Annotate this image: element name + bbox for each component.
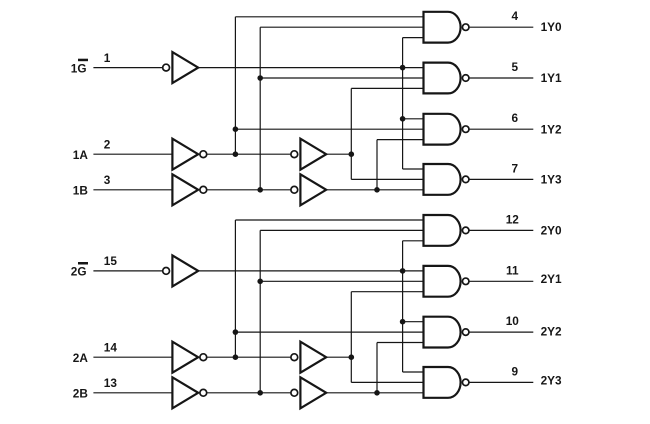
junction G2 / gate 2Y2 branch [400, 319, 406, 325]
wire 2Y1 output [469, 280, 533, 282]
junction A1-bar / gate 1Y2 branch [233, 126, 239, 132]
junction A2-bar / gate 2Y2 branch [233, 329, 239, 335]
nand gate 1Y2 output bubble [462, 126, 469, 133]
junction B2-bar tap on B row [257, 390, 263, 396]
wire 2Y0 output [469, 229, 533, 231]
wire G2 vertical [402, 241, 404, 372]
wire A1 to gate 1Y1 [351, 87, 423, 89]
svg-text:10: 10 [506, 314, 520, 328]
wire A1-bar to gate 1Y2 [235, 128, 423, 130]
svg-text:2A: 2A [73, 351, 89, 365]
wire A1 to gate 1Y3 [351, 178, 423, 180]
wire net B2-bar [207, 392, 291, 394]
nand gate 2Y0 [424, 215, 461, 246]
wire 2G input [93, 270, 162, 272]
svg-text:2: 2 [104, 137, 111, 151]
junction B1 tap [374, 187, 380, 193]
nand gate 2Y3 [424, 367, 461, 398]
svg-text:1B: 1B [73, 184, 88, 198]
wire G2 to gate 2Y3 [403, 371, 424, 373]
svg-text:1Y3: 1Y3 [541, 173, 562, 187]
wire 2Y3 output [469, 381, 533, 383]
wire B1-bar vertical [259, 27, 261, 190]
junction A2 tap [349, 354, 355, 360]
wire A1-bar vertical [234, 17, 236, 154]
inverter 2G enable buffer [163, 268, 170, 275]
wire A2-bar to gate 2Y2 [235, 331, 423, 333]
svg-text:2B: 2B [73, 387, 88, 401]
svg-text:1Y2: 1Y2 [541, 122, 562, 136]
svg-text:2Y2: 2Y2 [541, 325, 562, 339]
wire 1B input [93, 189, 172, 191]
wire B2 vertical [376, 343, 378, 393]
wire B1-bar to gate 1Y1 [260, 77, 423, 79]
wire 1A input [93, 153, 172, 155]
wire 1Y0 output [469, 26, 533, 28]
inverter 1A first stage [172, 139, 198, 170]
wire 1Y1 output [469, 77, 533, 79]
svg-text:11: 11 [506, 263, 519, 277]
wire B2-bar vertical [259, 230, 261, 392]
svg-text:2G: 2G [71, 265, 87, 279]
inverter 1B first stage [172, 174, 198, 205]
junction B1-bar tap on B row [257, 187, 263, 193]
wire G1 vertical [402, 38, 404, 169]
inverter 2A first stage [172, 342, 198, 373]
wire B1 vertical [376, 140, 378, 190]
svg-text:15: 15 [104, 254, 118, 268]
wire 1Y3 output [469, 178, 533, 180]
wire net B1-bar [207, 189, 291, 191]
wire A2-bar vertical [234, 220, 236, 357]
wire 2B input [93, 392, 172, 394]
svg-text:1Y0: 1Y0 [541, 20, 562, 34]
nand gate 1Y3 [424, 164, 461, 195]
svg-text:13: 13 [104, 376, 118, 390]
inverter 1G enable buffer [163, 64, 170, 71]
wire B1-bar to gate 1Y0 [260, 26, 423, 28]
wire A1 vertical [350, 88, 352, 179]
wire 2A input [93, 356, 172, 358]
svg-text:12: 12 [506, 212, 520, 226]
svg-text:3: 3 [104, 173, 111, 187]
wire A2 to gate 2Y1 [351, 291, 423, 293]
inverter 1B second stage [291, 186, 298, 193]
wire A2-bar to gate 2Y0 [235, 219, 423, 221]
wire A1-bar to gate 1Y0 [235, 16, 423, 18]
inverter 1A second stage [291, 151, 298, 158]
svg-text:2Y1: 2Y1 [541, 272, 562, 286]
svg-text:6: 6 [512, 111, 519, 125]
nand gate 1Y3 output bubble [462, 176, 469, 183]
svg-text:9: 9 [512, 364, 519, 378]
nand gate 1Y1 [424, 63, 461, 94]
wire net B1 into gate 1Y3 [326, 189, 423, 191]
nand gate 2Y2 [424, 317, 461, 348]
wire net A2-bar [207, 356, 291, 358]
junction G1 / gate 1Y2 branch [400, 116, 406, 122]
svg-text:4: 4 [512, 9, 519, 23]
wire B2-bar to gate 2Y1 [260, 280, 423, 282]
wire net A1 [326, 153, 351, 155]
wire G1 to gate 1Y2 [403, 118, 424, 120]
wire A2 vertical [350, 292, 352, 383]
junction A1 tap [349, 151, 355, 157]
svg-text:2Y0: 2Y0 [541, 223, 562, 237]
nand gate 1Y0 output bubble [462, 24, 469, 31]
inverter 2B second stage [291, 389, 298, 396]
junction A1-bar tap on A row [233, 151, 239, 157]
wire 1G input [93, 67, 162, 69]
svg-text:7: 7 [512, 161, 519, 175]
junction A2-bar tap on A row [233, 354, 239, 360]
junction G1 / gate 1Y1 [400, 65, 406, 71]
nand gate 1Y2 [424, 114, 461, 145]
svg-text:1A: 1A [73, 148, 89, 162]
wire B2-bar to gate 2Y0 [260, 229, 423, 231]
wire G1 to gate 1Y3 [403, 168, 424, 170]
inverter 2B first stage [172, 377, 198, 408]
nand gate 1Y1 output bubble [462, 75, 469, 82]
wire net A2 [326, 356, 351, 358]
nand gate 1Y0 [424, 12, 461, 43]
wire G2 to gate 2Y2 [403, 321, 424, 323]
svg-text:1G: 1G [71, 61, 87, 75]
wire 2Y2 output [469, 331, 533, 333]
junction G2 / gate 2Y1 [400, 268, 406, 274]
wire G1 to gate 1Y0 [403, 37, 424, 39]
wire net G2 to gate 2Y1 [198, 270, 423, 272]
wire A2 to gate 2Y3 [351, 381, 423, 383]
junction B1-bar / gate 1Y1 branch [257, 75, 263, 81]
wire G2 to gate 2Y0 [403, 240, 424, 242]
wire net G1 to gate 1Y1 [198, 67, 423, 69]
nand gate 2Y3 output bubble [462, 379, 469, 386]
svg-text:14: 14 [104, 340, 118, 354]
svg-text:5: 5 [512, 60, 519, 74]
svg-text:1Y1: 1Y1 [541, 71, 562, 85]
wire net A1-bar [207, 153, 291, 155]
svg-text:1: 1 [104, 51, 111, 65]
wire B2 to gate 2Y2 [377, 342, 424, 344]
wire 1Y2 output [469, 128, 533, 130]
nand gate 2Y0 output bubble [462, 227, 469, 234]
nand gate 2Y1 [424, 266, 461, 297]
svg-text:2Y3: 2Y3 [541, 374, 562, 388]
wire B1 to gate 1Y2 [377, 139, 424, 141]
junction B2 tap [374, 390, 380, 396]
nand gate 2Y2 output bubble [462, 329, 469, 336]
junction B2-bar / gate 2Y1 branch [257, 279, 263, 285]
inverter 2A second stage [291, 354, 298, 361]
nand gate 2Y1 output bubble [462, 278, 469, 285]
wire net B2 into gate 2Y3 [326, 392, 423, 394]
